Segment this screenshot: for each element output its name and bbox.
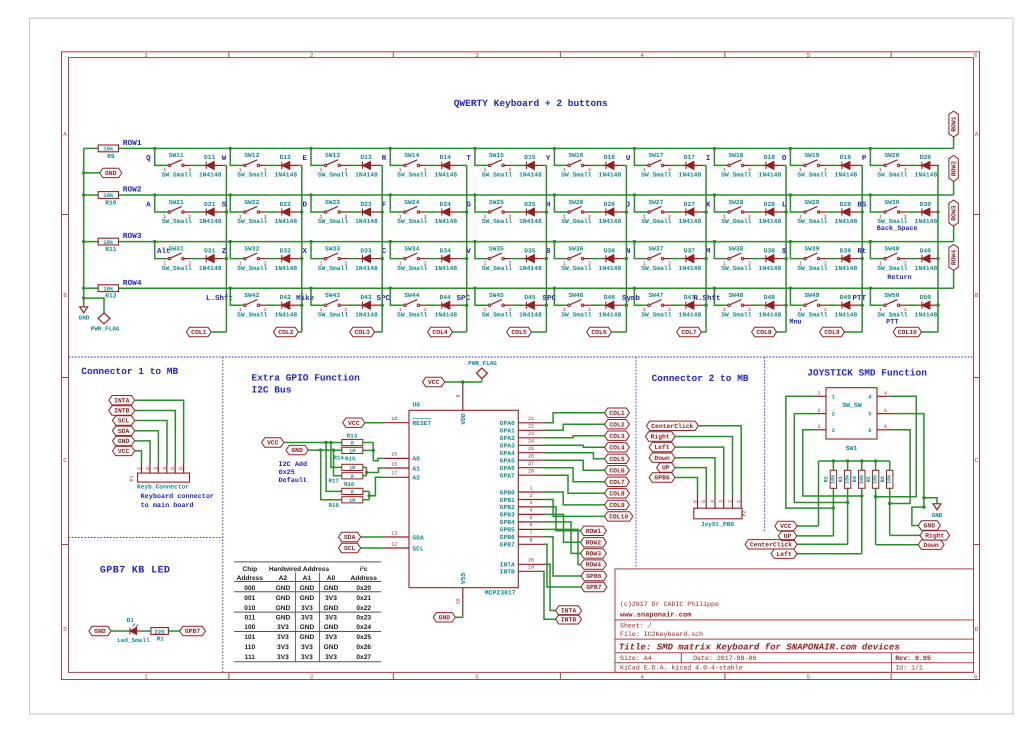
svg-text:A1: A1: [412, 465, 420, 472]
label COL4: [428, 327, 453, 336]
svg-text:D46: D46: [604, 294, 616, 301]
node junction gnd i2c: [319, 448, 322, 451]
wire cell drop SW36: [554, 242, 566, 259]
pin 10 VSS of U6: [462, 588, 464, 618]
svg-text:D40: D40: [920, 247, 932, 254]
svg-text:SW31: SW31: [169, 245, 184, 252]
diode D21: [202, 211, 207, 213]
pin 16 A1 of U6: [384, 467, 409, 469]
section divider horizontal: [69, 356, 974, 358]
svg-text:PTT: PTT: [852, 295, 866, 303]
wire cell drop SW16: [554, 148, 566, 165]
node junction col2 row4: [300, 304, 303, 307]
svg-text:QWERTY Keyboard + 2 buttons: QWERTY Keyboard + 2 buttons: [454, 98, 608, 109]
svg-text:SW24: SW24: [404, 199, 419, 206]
node junction col4 row3: [465, 257, 468, 260]
wire VCC rail i2c: [284, 442, 342, 444]
svg-text:GPB4: GPB4: [500, 519, 515, 526]
svg-text:SPC: SPC: [456, 294, 470, 303]
svg-text:5: 5: [701, 500, 707, 503]
node junction col4 row2: [465, 210, 468, 213]
svg-text:SW_Small: SW_Small: [641, 311, 671, 318]
node junction col6 row4: [625, 304, 628, 307]
wire diode D35 to column: [543, 258, 546, 260]
diode D49: [837, 304, 842, 306]
svg-text:ROW3: ROW3: [123, 232, 142, 241]
wire switch to diode D44: [427, 304, 438, 306]
svg-text:SW46: SW46: [568, 292, 583, 299]
svg-text:SW39: SW39: [804, 245, 819, 252]
wire VCC to P1: [135, 451, 142, 464]
svg-text:Default: Default: [279, 476, 308, 485]
svg-text:25: 25: [528, 446, 534, 452]
svg-text:1: 1: [736, 500, 742, 503]
switch SW27: [646, 211, 648, 213]
svg-text:Hardwired Address: Hardwired Address: [269, 566, 330, 573]
section divider vertical mid: [635, 357, 637, 569]
svg-text:Led_Small: Led_Small: [117, 637, 150, 644]
node junction row2 col1: [153, 193, 156, 196]
wire GPB6 to P2: [675, 478, 698, 495]
svg-text:SW_SW: SW_SW: [842, 402, 862, 409]
wire cell drop SW45: [475, 288, 487, 305]
svg-text:Title: SMD matrix Keyboard for: Title: SMD matrix Keyboard for SNAPONAIR…: [619, 643, 900, 653]
node junction col1 row2: [225, 210, 228, 213]
wire R1 to GPB7: [168, 630, 179, 632]
pin 22 GPA1 of U6: [518, 429, 543, 431]
svg-text:ROW2: ROW2: [123, 186, 142, 195]
svg-text:6: 6: [179, 467, 185, 470]
svg-text:3V3: 3V3: [325, 634, 337, 641]
wire COL6 to label: [612, 331, 627, 333]
wire R3 bottom: [847, 488, 849, 544]
svg-text:GPB6: GPB6: [586, 573, 602, 580]
wire pair2 join: [363, 466, 367, 468]
svg-text:10k: 10k: [830, 475, 836, 484]
wire diode D44 to column: [459, 304, 467, 306]
wire diode D33 to column: [380, 258, 383, 260]
label COL3 chip: [605, 431, 630, 440]
pin 4 of P1: [166, 464, 168, 474]
wire switch to diode D37: [671, 258, 682, 260]
svg-text:D36: D36: [604, 247, 616, 254]
svg-text:6: 6: [884, 424, 887, 430]
svg-text:1N4148: 1N4148: [599, 218, 622, 225]
wire switch to diode D33: [348, 258, 359, 260]
wire switch to diode D14: [427, 164, 438, 166]
svg-text:GND: GND: [94, 628, 106, 635]
svg-text:18: 18: [391, 416, 397, 422]
wire cell drop SW17: [634, 148, 646, 165]
section divider vertical joystick: [764, 357, 766, 531]
svg-text:SW19: SW19: [804, 152, 819, 159]
pin 5 GPB4 of U6: [518, 521, 543, 523]
section divider horizontal GPB7: [69, 537, 223, 539]
svg-text:10k: 10k: [845, 475, 851, 484]
svg-text:6: 6: [974, 52, 978, 59]
label COL1 chip: [605, 408, 630, 417]
label VCC connector1: [113, 446, 135, 455]
wire GPB6 net chip: [544, 537, 581, 576]
wire cell drop SW49: [790, 288, 802, 305]
wire to GND tag: [84, 172, 100, 174]
svg-text:1N4148: 1N4148: [519, 265, 542, 272]
svg-text:R1: R1: [157, 636, 165, 643]
wire cell drop SW23: [311, 195, 323, 212]
wire VCC joystick: [818, 461, 820, 526]
svg-text:6: 6: [974, 674, 978, 681]
svg-text:D44: D44: [440, 294, 452, 301]
svg-text:SDA: SDA: [412, 534, 424, 541]
node junction row4 col4: [389, 287, 392, 290]
svg-text:GND: GND: [276, 605, 291, 612]
svg-text:D34: D34: [440, 247, 452, 254]
led D1: [128, 630, 130, 632]
wire cell drop SW31: [155, 242, 167, 259]
switch SW17: [646, 164, 648, 166]
wire switch to diode D21: [191, 211, 202, 213]
svg-text:B: B: [63, 292, 67, 299]
svg-text:D: D: [975, 626, 979, 633]
pin 1 GPB0 of U6: [518, 491, 543, 493]
svg-text:www.snaponair.com: www.snaponair.com: [620, 611, 691, 620]
node junction vcc i2c: [324, 441, 327, 444]
pin 28 GPA7 of U6: [518, 474, 543, 476]
pin 23 GPA2 of U6: [518, 437, 543, 439]
svg-text:SW38: SW38: [728, 245, 743, 252]
svg-text:SW20: SW20: [884, 152, 899, 159]
svg-text:SW27: SW27: [648, 199, 663, 206]
svg-text:COL2: COL2: [609, 421, 625, 428]
resistor R17: [342, 473, 363, 479]
wire pin4 net: [876, 396, 917, 496]
svg-text:GPA4: GPA4: [500, 450, 515, 457]
wire cell drop SW15: [475, 148, 487, 165]
pin 6 of P1: [183, 464, 185, 474]
svg-text:10k: 10k: [103, 285, 114, 292]
svg-text:1: 1: [144, 52, 148, 59]
label COL3: [350, 327, 375, 336]
svg-text:011: 011: [244, 615, 255, 622]
switch SW29: [802, 211, 804, 213]
wire cell drop SW24: [390, 195, 402, 212]
diode D47: [681, 304, 686, 306]
svg-text:I2C Add: I2C Add: [279, 461, 308, 469]
svg-text:3: 3: [817, 424, 820, 430]
svg-text:COL5: COL5: [511, 329, 527, 336]
wire switch to diode D48: [751, 304, 762, 306]
svg-text:GND: GND: [300, 624, 315, 631]
diode D36: [601, 258, 606, 260]
svg-text:1N4148: 1N4148: [759, 311, 782, 318]
svg-text:SCL: SCL: [344, 545, 356, 552]
wire INTA net chip: [544, 564, 556, 610]
wire COL9 to label: [845, 331, 863, 333]
svg-text:Right: Right: [925, 533, 944, 540]
svg-text:0: 0: [351, 441, 354, 447]
pin 4 of P2: [714, 495, 716, 508]
wire diode D29 to column: [859, 211, 862, 213]
node junction row1 col4: [389, 147, 392, 150]
node junction row4 col5: [473, 287, 476, 290]
wire cell drop SW13: [311, 148, 323, 165]
svg-text:D19: D19: [840, 154, 852, 161]
wire COL5 to label: [532, 331, 547, 333]
svg-text:(c)2017 Dr CADIC Philippe: (c)2017 Dr CADIC Philippe: [620, 601, 719, 608]
switch SW15: [486, 164, 488, 166]
svg-text:COL1: COL1: [609, 410, 625, 417]
svg-text:D17: D17: [684, 154, 696, 161]
wire pin2 net: [794, 414, 847, 503]
wire cell drop SW25: [475, 195, 487, 212]
svg-text:0: 0: [351, 489, 354, 495]
svg-text:SW26: SW26: [568, 199, 583, 206]
connector P1: [138, 473, 190, 482]
diode D11: [202, 164, 207, 166]
node junction bus row4: [82, 287, 85, 290]
pin 7 GPB6 of U6: [518, 536, 543, 538]
svg-text:Sheet: /: Sheet: /: [620, 622, 652, 629]
svg-text:D21: D21: [204, 201, 216, 208]
svg-text:D18: D18: [764, 154, 776, 161]
diode D25: [522, 211, 527, 213]
label COL6 chip: [605, 466, 630, 475]
svg-text:COL8: COL8: [609, 490, 625, 497]
svg-text:ROW1: ROW1: [951, 116, 958, 132]
svg-text:VCC: VCC: [428, 379, 440, 386]
svg-text:A: A: [63, 131, 67, 138]
svg-text:12: 12: [391, 541, 397, 547]
label GND joystick: [918, 521, 940, 530]
svg-text:T: T: [466, 155, 471, 163]
svg-text:111: 111: [245, 654, 256, 661]
switch SW40: [882, 258, 884, 260]
svg-text:1N4148: 1N4148: [915, 218, 938, 225]
svg-text:GPA2: GPA2: [500, 435, 515, 442]
svg-text:JoySt_PB6: JoySt_PB6: [701, 521, 735, 528]
wire diode D36 to column: [623, 258, 627, 260]
svg-text:SW48: SW48: [728, 292, 743, 299]
switch SW38: [726, 258, 728, 260]
pin 9 VDD of U6: [462, 382, 464, 410]
label GPB7 chip: [581, 582, 607, 591]
svg-text:GPA7: GPA7: [500, 473, 515, 480]
wire diode D38 to column: [783, 258, 786, 260]
svg-text:INTB: INTB: [561, 616, 577, 623]
wire Right to P2: [675, 437, 733, 495]
wire R2 bottom: [832, 488, 834, 536]
svg-text:101: 101: [244, 634, 255, 641]
wire cell drop SW18: [714, 148, 726, 165]
svg-text:COL10: COL10: [609, 514, 628, 521]
wire cell drop SW48: [714, 288, 726, 305]
wire GND to D1: [111, 630, 128, 632]
wire diode D14 to column: [459, 164, 467, 166]
switch SW50: [882, 304, 884, 306]
node junction row2 col9: [789, 193, 792, 196]
diode D18: [761, 164, 766, 166]
svg-text:GND: GND: [324, 605, 339, 612]
svg-text:KiCad E.D.A. kicad 4.0.4-stab: KiCad E.D.A. kicad 4.0.4-stable: [620, 665, 743, 672]
wire diode D13 to column: [380, 164, 383, 166]
svg-text:R10: R10: [105, 199, 117, 206]
wire switch to diode D27: [671, 211, 682, 213]
svg-text:SW_Small: SW_Small: [162, 172, 192, 179]
node junction col5 row3: [545, 257, 548, 260]
svg-text:SW_Small: SW_Small: [482, 218, 512, 225]
switch SW14: [402, 164, 404, 166]
svg-text:C: C: [975, 457, 979, 464]
wire pin6 net: [890, 430, 910, 504]
switch SW37: [646, 258, 648, 260]
svg-text:COL3: COL3: [355, 329, 371, 336]
svg-text:ROW4: ROW4: [951, 250, 958, 266]
switch SW19: [802, 164, 804, 166]
wire diode D31 to column: [223, 258, 226, 260]
svg-text:D43: D43: [360, 294, 372, 301]
switch SW43: [323, 304, 325, 306]
switch SW49: [802, 304, 804, 306]
pin 1 of P1: [141, 464, 143, 474]
wire diode D20 to column: [937, 164, 940, 166]
svg-text:3: 3: [475, 674, 479, 681]
pin 3 GPB2 of U6: [518, 506, 543, 508]
svg-text:SW17: SW17: [648, 152, 663, 159]
svg-text:GPB6: GPB6: [500, 534, 515, 541]
svg-text:1N4148: 1N4148: [274, 218, 297, 225]
svg-text:D12: D12: [280, 154, 292, 161]
svg-text:24: 24: [528, 439, 534, 445]
svg-text:ROW3: ROW3: [586, 551, 602, 558]
svg-text:2: 2: [817, 408, 820, 414]
svg-text:SDA: SDA: [118, 428, 130, 435]
svg-text:20: 20: [528, 558, 534, 564]
wire SDA to P1: [135, 431, 159, 464]
wire R4 bottom: [861, 488, 863, 553]
resistor R4: [859, 470, 865, 488]
wire R2 top stub: [832, 461, 834, 470]
svg-text:D: D: [302, 202, 307, 210]
wire bus to resistor R9: [84, 147, 99, 149]
svg-text:8: 8: [529, 538, 532, 544]
node junction col3 row2: [381, 210, 384, 213]
svg-text:6: 6: [868, 427, 871, 434]
table chip address: [234, 561, 381, 563]
svg-text:100: 100: [244, 624, 255, 631]
svg-text:SW_Small: SW_Small: [397, 218, 427, 225]
wire diode D12 to column: [299, 164, 302, 166]
resistor R9: [98, 145, 118, 152]
pin 26 GPA5 of U6: [518, 459, 543, 461]
svg-text:SW34: SW34: [404, 245, 419, 252]
svg-text:D14: D14: [440, 154, 452, 161]
node junction pin4 R5: [874, 495, 877, 498]
pin 5 of SW1: [877, 413, 890, 415]
pin 2 of P1: [149, 464, 151, 474]
diode D17: [681, 164, 686, 166]
label COL2 chip: [605, 420, 630, 429]
node junction bus pwr_flag: [82, 296, 85, 299]
wire INTB to P1: [135, 411, 176, 464]
wire diode D27 to column: [703, 211, 706, 213]
svg-text:SPC: SPC: [376, 294, 390, 303]
svg-text:R.Shft: R.Shft: [693, 294, 720, 303]
svg-text:1N4148: 1N4148: [915, 265, 938, 272]
wire COL2 to label: [298, 331, 302, 333]
svg-text:1N4148: 1N4148: [599, 265, 622, 272]
pin 5 of P1: [174, 464, 176, 474]
wire switch to diode D12: [267, 164, 278, 166]
node junction col4 row4: [465, 304, 468, 307]
svg-text:P1: P1: [129, 475, 135, 481]
wire COL5 vertical: [545, 165, 547, 332]
svg-text:X: X: [302, 248, 307, 256]
node junction col9 row4: [861, 304, 864, 307]
diode D32: [277, 258, 282, 260]
svg-text:SW_Small: SW_Small: [318, 265, 348, 272]
switch SW16: [566, 164, 568, 166]
wire COL7 vertical: [705, 165, 707, 332]
svg-text:R15: R15: [345, 456, 356, 463]
svg-text:SW_Small: SW_Small: [561, 265, 591, 272]
diode D34: [437, 258, 442, 260]
wire COL8 net: [544, 475, 605, 493]
svg-text:SW18: SW18: [728, 152, 743, 159]
svg-text:SW_Small: SW_Small: [797, 265, 827, 272]
wire GND rail i2c: [308, 449, 342, 451]
switch SW44: [402, 304, 404, 306]
svg-text:5: 5: [529, 515, 532, 521]
node junction pin6 R6: [888, 502, 891, 505]
svg-text:GND: GND: [439, 614, 451, 621]
svg-text:INTA: INTA: [500, 562, 515, 569]
wire R5 bottom to Down: [875, 488, 877, 544]
wire switch to diode D25: [511, 211, 522, 213]
wire CenterClick to P2: [698, 426, 741, 495]
svg-text:COL7: COL7: [681, 329, 697, 336]
pin 2 GPB1 of U6: [518, 499, 543, 501]
wire COL8 vertical: [785, 165, 787, 332]
node junction bus row3: [82, 240, 85, 243]
svg-text:1M: 1M: [349, 498, 355, 504]
wire cell drop SW34: [390, 242, 402, 259]
switch SW11: [166, 164, 168, 166]
wire Left joystick: [797, 553, 862, 555]
wire cell drop SW47: [634, 288, 646, 305]
svg-text:15: 15: [391, 452, 397, 458]
wire diode D11 to column: [223, 164, 226, 166]
wire Left to P2: [675, 447, 724, 495]
node junction col1 row3: [225, 257, 228, 260]
svg-text:010: 010: [244, 605, 255, 612]
svg-text:220: 220: [155, 628, 166, 635]
svg-text:1N4148: 1N4148: [679, 311, 702, 318]
svg-text:SW_Small: SW_Small: [877, 172, 907, 179]
diode D24: [437, 211, 442, 213]
node junction row2 col7: [633, 193, 636, 196]
svg-text:GPA0: GPA0: [500, 420, 515, 427]
wire COL8 to label: [777, 331, 787, 333]
node junction row1 col10: [869, 147, 872, 150]
node junction row1 col7: [633, 147, 636, 150]
diode D40: [917, 258, 922, 260]
svg-text:GND: GND: [300, 585, 315, 592]
wire CenterClick joystick: [797, 543, 848, 545]
wire diode D23 to column: [380, 211, 383, 213]
svg-text:SW_Small: SW_Small: [318, 172, 348, 179]
switch SW21: [166, 211, 168, 213]
svg-text:SW45: SW45: [489, 292, 504, 299]
